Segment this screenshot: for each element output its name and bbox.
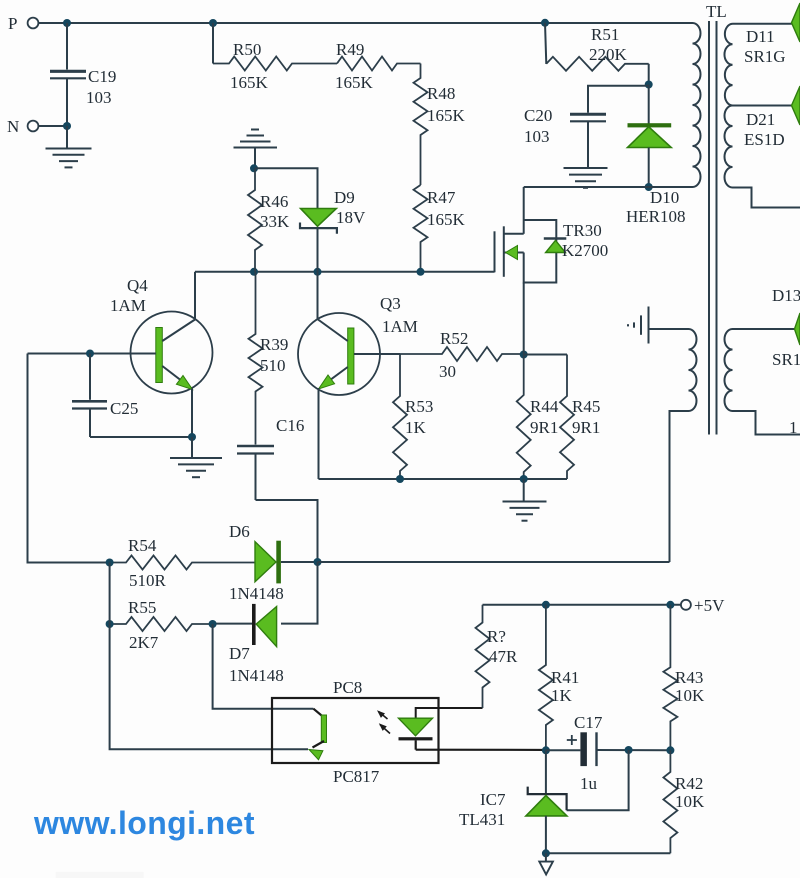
svg-text:47R: 47R (489, 647, 518, 666)
svg-text:1K: 1K (551, 686, 573, 705)
node N junction (63, 122, 71, 130)
svg-text:C25: C25 (110, 399, 138, 418)
svg-text:510R: 510R (129, 571, 167, 590)
wire C16 to D6 node (256, 500, 318, 562)
label C20 103 (524, 106, 552, 146)
svg-text:ES1D: ES1D (744, 130, 785, 149)
capacitor C17 (546, 732, 671, 766)
label R41 1K (551, 668, 579, 705)
light arrows inside PC8 (377, 710, 390, 733)
label R39 510 (260, 335, 288, 375)
bottom faint bar (56, 872, 144, 878)
body diode of TR30 (544, 239, 567, 253)
label R? 47R (487, 627, 518, 666)
svg-text:Q4: Q4 (127, 276, 148, 295)
wire to D9 top (255, 168, 318, 208)
label D10 HER108 (626, 188, 686, 226)
wire Q3 collector (317, 272, 319, 320)
node TL431 anode junction (542, 849, 550, 857)
svg-text:510: 510 (260, 356, 286, 375)
label R46 33K (260, 192, 290, 231)
label D13 SR1 (772, 286, 800, 369)
wire D6 node down to D7 (281, 562, 318, 624)
wire R55 right down to PC8 collector (213, 624, 314, 709)
ground open triangle (539, 853, 553, 874)
svg-text:PC817: PC817 (333, 767, 380, 786)
resistor R52 (400, 347, 524, 361)
wire D6 node to aux winding (318, 561, 670, 563)
svg-text:C16: C16 (276, 416, 304, 435)
resistor R39 (249, 272, 263, 445)
svg-text:R43: R43 (675, 668, 703, 687)
svg-text:K2700: K2700 (562, 241, 608, 260)
label R51 220K (589, 25, 628, 64)
svg-text:D13: D13 (772, 286, 800, 305)
transformer secondary winding upper (724, 24, 800, 208)
svg-text:IC7: IC7 (480, 790, 506, 809)
svg-text:10K: 10K (675, 686, 705, 705)
svg-text:C19: C19 (88, 67, 116, 86)
transistor Q4 (131, 312, 213, 394)
label C17 plus 1u (567, 713, 603, 793)
node R52 R44 junction (520, 351, 528, 359)
ground below C20 (564, 167, 608, 169)
svg-text:165K: 165K (427, 106, 466, 125)
resistor R45 (524, 355, 574, 480)
svg-text:+5V: +5V (694, 596, 725, 615)
ground below C19 (46, 126, 92, 167)
svg-text:D9: D9 (334, 188, 355, 207)
zener diode D9 (300, 209, 337, 272)
wire +5V rail (483, 604, 681, 606)
transformer secondary winding lower (725, 329, 800, 435)
node R55 right junction (209, 620, 217, 628)
label TR30 K2700 (562, 221, 608, 260)
node R51 D10 junction (645, 81, 653, 89)
node P-C19 junction (63, 19, 71, 27)
wire Q3 emitter (319, 388, 524, 479)
wire Q4 base (28, 353, 156, 355)
svg-text:18V: 18V (336, 208, 366, 227)
svg-text:1: 1 (789, 418, 798, 437)
wire P rail top (39, 22, 693, 24)
label R55 2K7 (128, 598, 159, 652)
svg-text:R53: R53 (405, 397, 433, 416)
node C25 tap (86, 350, 94, 358)
resistor R48 (414, 64, 428, 186)
label C19 103 (86, 67, 116, 107)
svg-text:HER108: HER108 (626, 207, 686, 226)
diode D10 (628, 85, 672, 188)
resistor R51 (545, 23, 649, 85)
terminal +5V (681, 596, 725, 615)
label R50 165K (230, 40, 269, 92)
diode D7 (213, 604, 277, 647)
wire left bus (28, 354, 110, 563)
svg-text:9R1: 9R1 (572, 418, 600, 437)
label D11 SR1G (744, 27, 786, 66)
diode D6 (255, 541, 318, 584)
svg-text:220K: 220K (589, 45, 628, 64)
capacitor C19 (50, 23, 86, 126)
svg-text:R39: R39 (260, 335, 288, 354)
svg-text:165K: 165K (427, 210, 466, 229)
node D10 bottom junction (645, 183, 653, 191)
node R41 top junction (542, 601, 550, 609)
node R47 rail junction (417, 268, 425, 276)
resistor R49 (337, 57, 421, 71)
node D6 right junction (314, 558, 322, 566)
node R41 bottom junction (542, 746, 550, 754)
capacitor C20 (570, 86, 649, 167)
svg-text:D10: D10 (650, 188, 679, 207)
wire TL431 ref (567, 750, 629, 810)
svg-text:1K: 1K (405, 418, 427, 437)
terminal N (7, 117, 38, 136)
svg-text:R48: R48 (427, 84, 455, 103)
svg-text:R44: R44 (530, 397, 559, 416)
resistor R50 (213, 23, 337, 71)
label R42 10K (675, 774, 705, 811)
wire R54-R55 left link (109, 563, 111, 625)
label R47 165K (427, 188, 466, 229)
svg-text:R46: R46 (260, 192, 288, 211)
wire gate rail (195, 271, 495, 273)
label D9 18V (334, 188, 366, 227)
wire drain rail (524, 186, 693, 188)
node R54 left junction (106, 559, 114, 567)
node R43 top junction (666, 601, 674, 609)
svg-text:P: P (8, 14, 17, 33)
node R46-D9 top junction (250, 164, 258, 172)
wire Q4 emitter to ground (90, 389, 192, 438)
wire Q3 base (354, 353, 400, 355)
phototransistor inside PC8 (309, 709, 327, 760)
svg-text:R47: R47 (427, 188, 456, 207)
label R43 10K (675, 668, 705, 705)
capacitor C25 (72, 354, 107, 438)
svg-text:TL: TL (706, 2, 727, 21)
svg-text:www.longi.net: www.longi.net (33, 805, 255, 841)
svg-text:D11: D11 (746, 27, 775, 46)
resistor R43 (663, 605, 677, 751)
label Q4 1AM (110, 276, 148, 315)
label R44 9R1 (530, 397, 559, 437)
svg-text:SR1G: SR1G (744, 47, 786, 66)
label R54 510R (128, 536, 167, 590)
diode D21 (792, 86, 800, 125)
svg-text:R49: R49 (336, 40, 364, 59)
wire Q4 collector (194, 272, 196, 320)
svg-text:10K: 10K (675, 792, 705, 811)
svg-text:1AM: 1AM (382, 317, 418, 336)
svg-text:103: 103 (86, 88, 112, 107)
label D6 1N4148 (229, 522, 284, 603)
svg-text:C20: C20 (524, 106, 552, 125)
node R55 left junction (106, 620, 114, 628)
led inside PC8 (399, 708, 546, 750)
optocoupler PC8 box (272, 698, 439, 763)
node C17 right junction (625, 746, 633, 754)
node R42 top junction (666, 746, 674, 754)
svg-text:C17: C17 (574, 713, 603, 732)
inverted ground above R46 (234, 130, 278, 169)
svg-text:SR1: SR1 (772, 350, 800, 369)
resistor R47 (414, 185, 428, 272)
svg-text:R55: R55 (128, 598, 156, 617)
svg-text:30: 30 (439, 362, 456, 381)
label R45 9R1 (572, 397, 600, 437)
label IC7 TL431 (459, 790, 506, 829)
svg-text:165K: 165K (230, 73, 269, 92)
svg-text:R51: R51 (591, 25, 619, 44)
diode D13 (795, 313, 800, 345)
resistor R41 (539, 605, 553, 751)
node R44 bottom junction (520, 475, 528, 483)
resistor R44 (517, 355, 531, 480)
svg-text:R52: R52 (440, 329, 468, 348)
svg-text:R45: R45 (572, 397, 600, 416)
resistor R54 (110, 556, 255, 570)
node R53 bottom junction (396, 475, 404, 483)
svg-text:1N4148: 1N4148 (229, 666, 284, 685)
node rail-R51 junction (541, 19, 549, 27)
svg-text:D21: D21 (746, 110, 775, 129)
svg-text:2K7: 2K7 (129, 633, 159, 652)
svg-text:D7: D7 (229, 644, 250, 663)
svg-text:33K: 33K (260, 212, 290, 231)
wire R55 left down to PC8 emitter (110, 624, 308, 749)
label D7 1N4148 (229, 644, 284, 685)
label D21 ES1D (744, 110, 785, 149)
terminal P (8, 14, 38, 33)
svg-text:PC8: PC8 (333, 678, 362, 697)
transformer auxiliary winding (649, 329, 697, 562)
svg-text:R54: R54 (128, 536, 157, 555)
svg-text:R41: R41 (551, 668, 579, 687)
svg-text:D6: D6 (229, 522, 250, 541)
svg-text:R42: R42 (675, 774, 703, 793)
svg-text:103: 103 (524, 127, 550, 146)
transformer core (709, 21, 717, 435)
node Q4 emitter junction (188, 433, 196, 441)
resistor R? (476, 605, 490, 708)
shunt regulator IC7 TL431 (526, 750, 567, 853)
resistor R42 (546, 750, 678, 853)
node D9 rail junction (314, 268, 322, 276)
node R46 rail junction (250, 268, 258, 276)
label R52 30 (439, 329, 468, 381)
svg-text:TR30: TR30 (563, 221, 602, 240)
svg-text:1u: 1u (580, 774, 598, 793)
label Q3 1AM (380, 294, 418, 336)
resistor R46 (248, 168, 262, 271)
diode D11 (792, 3, 800, 42)
label R53 1K (405, 397, 433, 437)
label R49 165K (335, 40, 374, 92)
svg-text:9R1: 9R1 (530, 418, 558, 437)
node rail-R50 junction (209, 19, 217, 27)
svg-text:165K: 165K (335, 73, 374, 92)
ground below Q4 (170, 437, 222, 477)
transformer primary winding (693, 23, 701, 187)
svg-text:1AM: 1AM (110, 296, 146, 315)
svg-text:TL431: TL431 (459, 810, 505, 829)
svg-text:1N4148: 1N4148 (229, 584, 284, 603)
mosfet TR30 (495, 187, 557, 355)
label R48 165K (427, 84, 466, 125)
capacitor C16 (237, 446, 274, 500)
ground tilted at auxiliary winding (628, 307, 649, 344)
svg-text:Q3: Q3 (380, 294, 401, 313)
svg-text:R?: R? (487, 627, 506, 646)
svg-text:N: N (7, 117, 19, 136)
resistor R53 (393, 354, 407, 479)
resistor R55 (110, 617, 213, 631)
wire N to C19 (39, 125, 68, 127)
transistor Q3 (298, 313, 380, 395)
svg-text:R50: R50 (233, 40, 261, 59)
ground below R44 (503, 479, 547, 521)
